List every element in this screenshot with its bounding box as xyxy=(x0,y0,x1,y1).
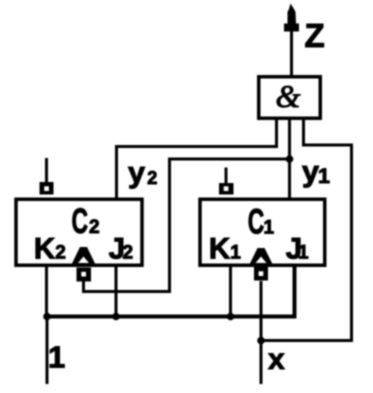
svg-text:C: C xyxy=(72,201,89,241)
svg-text:2: 2 xyxy=(55,243,66,264)
svg-text:K: K xyxy=(34,233,56,266)
svg-text:y: y xyxy=(302,156,319,189)
svg-text:1: 1 xyxy=(298,243,309,264)
svg-text:C: C xyxy=(248,202,265,242)
svg-text:&: & xyxy=(276,78,301,114)
svg-text:2: 2 xyxy=(89,217,100,238)
svg-text:K: K xyxy=(209,233,231,266)
svg-text:y: y xyxy=(128,157,145,190)
svg-text:2: 2 xyxy=(123,243,134,264)
svg-text:x: x xyxy=(268,343,285,376)
svg-text:1: 1 xyxy=(264,218,275,239)
svg-text:2: 2 xyxy=(147,168,157,188)
svg-text:1: 1 xyxy=(48,340,65,375)
svg-text:1: 1 xyxy=(318,164,330,188)
svg-text:Z: Z xyxy=(305,17,325,54)
svg-text:1: 1 xyxy=(230,243,241,264)
